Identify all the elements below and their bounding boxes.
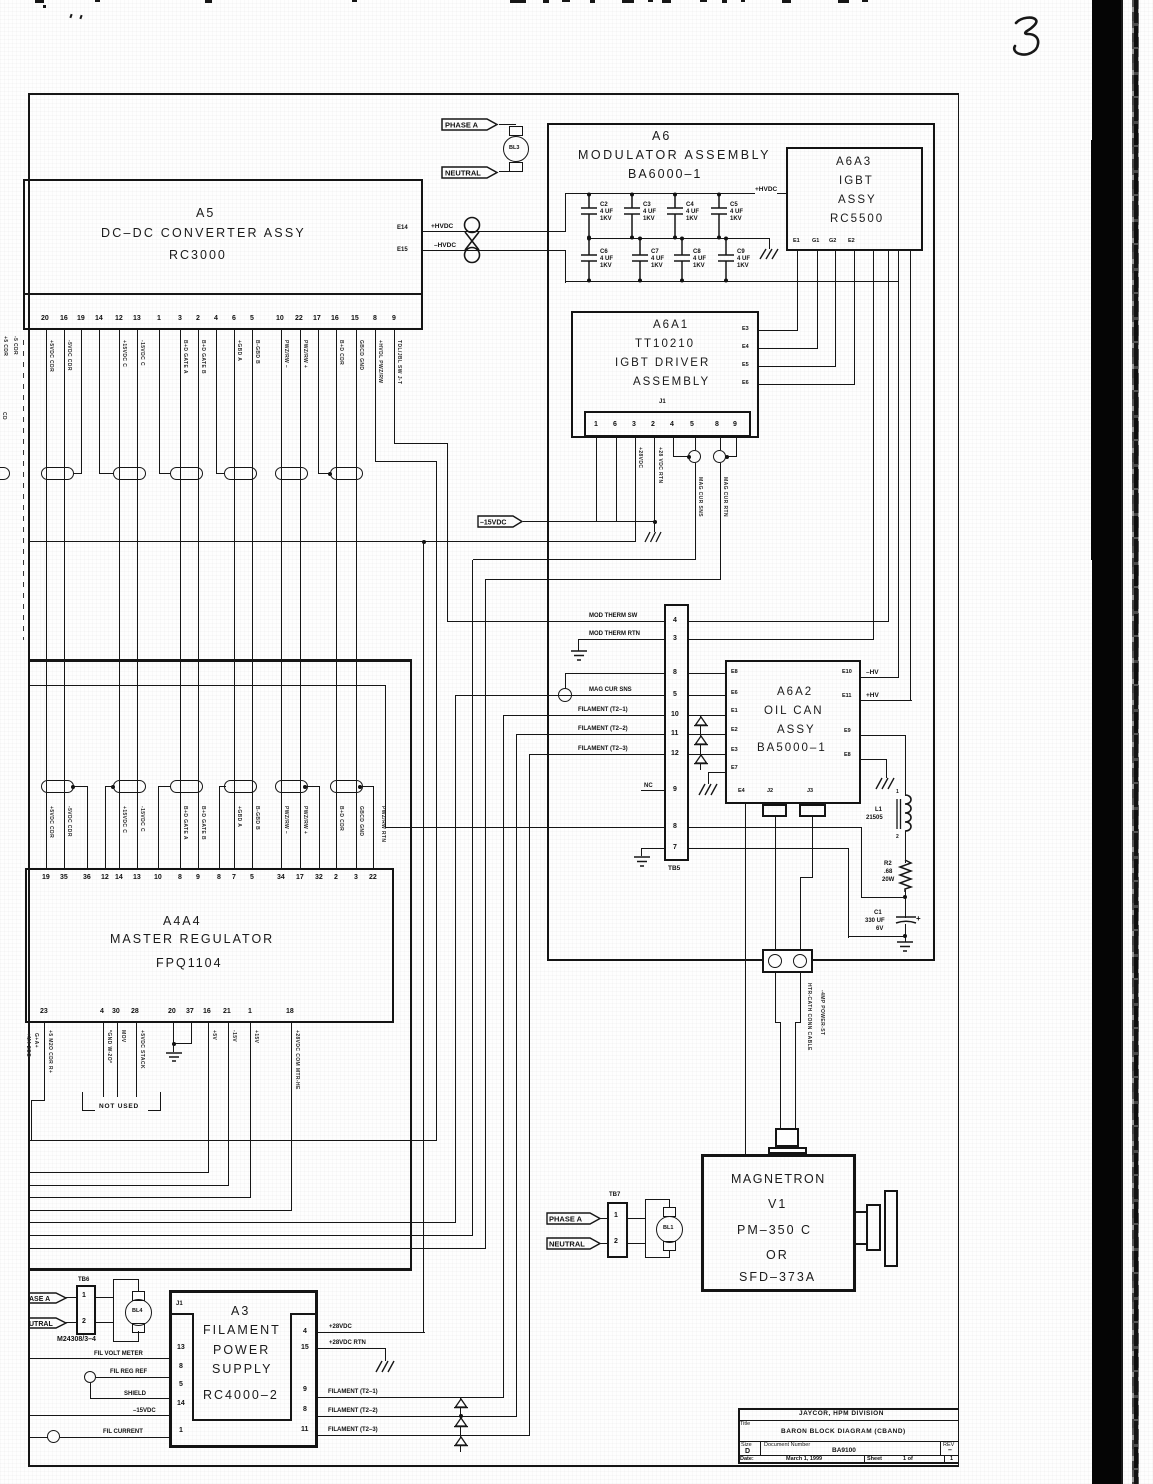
junction at oval6 left end: [328, 472, 332, 476]
FILAMENT T2-1 output: [318, 1397, 504, 1398]
wire A4A4-23: [44, 1023, 45, 1100]
wire L1 to R2: [905, 831, 906, 863]
FILAMENT T2-3 output: [318, 1435, 530, 1436]
svg-text:4 UF: 4 UF: [686, 209, 699, 215]
rotated cable labels: [806, 983, 811, 1051]
MOD THERM SW line: [447, 621, 664, 622]
wire A6A3-E1 to A6A1-E3: [797, 251, 798, 331]
spark gap stack: [700, 715, 701, 770]
capacitor C1: [895, 915, 921, 927]
wire A5-17: [318, 330, 319, 474]
magnetron V1 box: [701, 1154, 856, 1292]
resistor R2: [897, 860, 915, 892]
sheet border frame: [30, 93, 959, 95]
wire to TB5-8 feed: [30, 685, 386, 686]
A4A4 bottom pin numbers: [40, 1008, 48, 1015]
MAG CUR SNS line with CT circle: [456, 695, 664, 696]
wire J3 to magnetron stem: [812, 817, 813, 878]
pin E14: [397, 225, 408, 231]
thick C-bus bottom run: [29, 1268, 412, 1271]
MOD THERM RTN line: [578, 639, 664, 640]
svg-text:UTRAL: UTRAL: [29, 1321, 53, 1328]
J1-2 stub to ground: [654, 437, 655, 532]
J1-1 stub: [596, 437, 597, 522]
NEUTRAL flag cut at margin: [28, 1317, 68, 1329]
current transformer on J1-5: [688, 450, 701, 463]
E10 -HV wire: [861, 677, 899, 678]
inductor L1: [893, 793, 923, 837]
wire A5-4: [216, 330, 217, 474]
title block: [738, 1408, 740, 1463]
A3 filament power supply box: [169, 1290, 318, 1448]
capacitor C4: [667, 193, 707, 239]
rotated net labels below A5: [48, 340, 53, 372]
+28VDC RTN to ground: [318, 1348, 386, 1349]
J1-6 stub: [616, 437, 617, 522]
PHASE A flag at TB7: [546, 1212, 602, 1225]
wire A5-5: [252, 330, 253, 868]
wire A6A3-G1 to A6A1-E4: [817, 251, 818, 349]
svg-text:NEUTRAL: NEUTRAL: [549, 1240, 585, 1249]
arrester stack on filament lines: [460, 1397, 461, 1452]
oval2-4 tap to A4A4 pin 8: [219, 786, 226, 787]
bundle line y1140: [30, 1140, 437, 1141]
twisted pair symbol: [458, 214, 488, 266]
wire E4 to magnetron: [745, 804, 746, 1154]
svg-text:C2: C2: [600, 202, 608, 208]
wire A5-14: [99, 330, 100, 474]
-15VDC flag: [477, 515, 524, 528]
riser MAG CUR SNS to bundle: [455, 695, 456, 1223]
wire A5-9 jog: [394, 330, 395, 443]
J1-9 stub to CT: [736, 437, 737, 457]
wire J2 to magnetron stem: [775, 817, 776, 1023]
FILAMENT T2-3 line: [529, 754, 664, 755]
TB5-7 ground stub: [641, 848, 664, 849]
svg-text:1KV: 1KV: [730, 216, 742, 222]
A5 bottom pin numbers: [41, 315, 49, 322]
+28VDC riser from A3 pin4: [423, 541, 424, 1332]
wire A5-15: [356, 330, 357, 868]
svg-text:1KV: 1KV: [737, 263, 749, 269]
svg-text:PHASE A: PHASE A: [549, 1215, 583, 1224]
wire A4A4-21: [228, 1023, 229, 1186]
TB5-8 hook to sense CT: [565, 673, 664, 674]
earth ground symbol: [165, 1052, 183, 1064]
oval2-5 tap to A4A4 pin 32: [303, 785, 307, 789]
junction +28VDC riser: [422, 540, 426, 544]
wire -HVDC from E15: [423, 250, 565, 251]
svg-text:1KV: 1KV: [600, 263, 612, 269]
TB5-8 feed to R2 node: [861, 827, 862, 898]
earth ground below C1: [896, 941, 914, 954]
A5 DC-DC converter assembly box: [23, 179, 423, 330]
cut-off text scraps along top edge: [35, 0, 44, 3]
svg-text:4 UF: 4 UF: [693, 256, 706, 262]
A6A3 pin labels: [793, 239, 800, 245]
PHASE A flag cut at margin: [28, 1292, 68, 1304]
A4A4 master regulator box: [25, 868, 394, 1023]
J3 stub connector: [799, 804, 826, 817]
svg-text:C5: C5: [730, 202, 738, 208]
not-used stubs pins 4 30 28: [103, 1023, 104, 1097]
capacitor C7: [632, 237, 672, 283]
A6A3 IGBT assy box: [786, 147, 923, 251]
-15VDC line: [28, 1415, 169, 1416]
thick C-bus top run: [30, 659, 412, 662]
wire -15VDC run: [523, 521, 655, 522]
wire A5-3: [180, 330, 181, 868]
capacitor C6: [581, 237, 621, 283]
wire A6A3 to -HV: [898, 251, 899, 677]
svg-text:1KV: 1KV: [693, 263, 705, 269]
NC stub: [641, 790, 664, 791]
capacitor C9: [718, 237, 758, 283]
J1-3 stub joins +28VDC run: [635, 437, 636, 541]
FIL VOLT METER line: [28, 1358, 169, 1359]
blower BL4 wiring bracket: [96, 1297, 114, 1298]
connector oval row 2: [41, 780, 74, 793]
svg-text:1KV: 1KV: [600, 216, 612, 222]
NOT USED bracket: [82, 1092, 83, 1111]
C1 bottom node: [905, 924, 906, 942]
FIL CURRENT line with meter: [28, 1437, 48, 1438]
TB5-7 feed to C1 bottom: [848, 848, 849, 938]
PHASE A input flag: [441, 118, 499, 131]
svg-text:PHASE A: PHASE A: [445, 121, 479, 130]
svg-text:4 UF: 4 UF: [600, 256, 613, 262]
rotated labels below A4A4: [47, 1030, 52, 1073]
riser to MOD THERM SW: [447, 443, 448, 621]
wire A5-12: [119, 330, 120, 868]
wire A5-20: [46, 330, 47, 868]
E8 right ground: [861, 759, 887, 760]
wire A5-19: [81, 330, 82, 474]
connector oval row 1: [41, 467, 74, 480]
svg-text:1KV: 1KV: [643, 216, 655, 222]
wire A6A3-G2 to A6A1-E5: [835, 251, 836, 367]
svg-text:C6: C6: [600, 249, 608, 255]
wire A5-13: [137, 330, 138, 868]
cut oval at left margin: [0, 467, 10, 480]
svg-text:+: +: [916, 914, 921, 923]
wire A5-10: [281, 330, 282, 868]
J1-4 stub to CT: [673, 437, 674, 457]
waveguide flange: [856, 1211, 868, 1213]
wire A5-22: [300, 330, 301, 868]
FIL REG REF meter circle: [84, 1371, 96, 1383]
wire +28VDC run to J1-3: [30, 541, 636, 542]
oval2-2 tap to A4A4 pin 12: [111, 785, 115, 789]
oval2-6 tap to A4A4 pin 22: [358, 785, 362, 789]
capacitor C8: [674, 237, 714, 283]
pen specks top left: [43, 5, 46, 8]
A6A1 IGBT driver box: [571, 311, 759, 438]
junction at J1-2 drop: [653, 520, 657, 524]
NEUTRAL input flag: [441, 166, 499, 179]
+28VDC output: [318, 1332, 425, 1333]
wire A4A4-16: [208, 1023, 209, 1173]
wire A5-6: [234, 330, 235, 868]
svg-text:–15VDC: –15VDC: [480, 520, 506, 527]
filament risers: [503, 715, 504, 1398]
TB5-7 through line: [689, 848, 849, 849]
TB5 terminal strip: [664, 604, 689, 861]
cut rotated labels at left margin: [2, 336, 7, 356]
svg-text:C3: C3: [643, 202, 651, 208]
wire A5-16b: [336, 330, 337, 868]
TB5-8 through line: [386, 827, 664, 828]
wire A6A3 to +HV: [910, 251, 911, 700]
riser J1-5 sense to bundle: [472, 560, 473, 1236]
svg-text:C7: C7: [651, 249, 659, 255]
FILAMENT T2-1 line: [503, 715, 664, 716]
capacitor bank mid bus: [589, 238, 770, 239]
scan artifact mottled streak: [1132, 0, 1134, 1484]
E9 wire to L1: [861, 735, 906, 736]
wire A4A4-1: [250, 1023, 251, 1198]
J2 stub connector: [762, 804, 787, 817]
thick C-bus right riser: [410, 659, 413, 1270]
A6A2 oil can assy box: [725, 660, 861, 804]
svg-text:C8: C8: [693, 249, 701, 255]
wire A5-2: [198, 330, 199, 868]
pins 20/37 tied to ground: [173, 1023, 174, 1044]
svg-text:4 UF: 4 UF: [643, 209, 656, 215]
capacitor bank top bus +HVDC: [565, 193, 786, 194]
mid bus ground drop: [769, 238, 770, 249]
A4A4 top pin numbers: [42, 874, 50, 881]
oval2-1 tap to A4A4 pin 36: [71, 785, 75, 789]
blower BL1 wiring bracket: [628, 1218, 645, 1219]
FILAMENT T2-2 output: [318, 1416, 517, 1417]
svg-text:NEUTRAL: NEUTRAL: [445, 169, 481, 178]
A6 modulator assembly box: [547, 123, 935, 961]
wire A6A3 to MOD THERM RTN: [873, 251, 874, 639]
E7 ground: [708, 772, 725, 773]
wire A5-16: [64, 330, 65, 868]
svg-text:1KV: 1KV: [651, 263, 663, 269]
earth ground symbol: [570, 650, 588, 663]
FILAMENT T2-2 line: [516, 734, 664, 735]
oval2-3 tap to A4A4 pin 10: [158, 786, 170, 787]
svg-text:4 UF: 4 UF: [600, 209, 613, 215]
riser J1-8 sense to bundle: [485, 579, 486, 1249]
TB7 terminal block: [609, 1192, 620, 1198]
svg-text:4 UF: 4 UF: [730, 209, 743, 215]
capacitor C2: [581, 193, 621, 239]
scan artifact black bar at right edge: [1092, 0, 1121, 1484]
handwritten page number 3: [1008, 12, 1052, 58]
svg-text:4 UF: 4 UF: [651, 256, 664, 262]
svg-text:4 UF: 4 UF: [737, 256, 750, 262]
svg-text:ASE A: ASE A: [29, 1296, 50, 1303]
E11 +HV wire: [861, 700, 912, 701]
magnetron cathode stem: [775, 1128, 799, 1147]
svg-text:C4: C4: [686, 202, 694, 208]
wire A4A4-18: [291, 1023, 292, 1211]
pin E15: [397, 247, 408, 253]
riser to bottom-left bundle: [436, 461, 437, 1140]
rotated net labels above A4A4: [48, 806, 53, 838]
wire A6A3 to MOD THERM SW: [888, 251, 889, 621]
wire A6A3-E2 to A6A1-E6: [854, 251, 855, 385]
TB6 terminal block: [78, 1277, 89, 1283]
filament lines TB5 to A6A2: [689, 673, 725, 674]
blower BL4: [132, 1291, 145, 1301]
blower BL3: [499, 124, 516, 125]
svg-text:C9: C9: [737, 249, 745, 255]
junction R2/C1 top: [905, 890, 906, 918]
NEUTRAL flag at TB7: [546, 1237, 602, 1250]
svg-text:1KV: 1KV: [686, 216, 698, 222]
capacitor bank bottom bus: [565, 281, 899, 282]
wire A5-1: [159, 330, 160, 474]
dashed remnant of cut left edge: [23, 340, 24, 640]
SHIELD line: [90, 1383, 91, 1399]
J1 connector strip: [584, 411, 751, 437]
current transformer on J1-8: [713, 450, 726, 463]
capacitor C5: [711, 193, 751, 239]
capacitor C3: [624, 193, 664, 239]
wire +HVDC from E14: [423, 231, 565, 232]
wire A5-8 jog: [375, 330, 376, 462]
blower BL1: [663, 1207, 676, 1217]
feedthrough connector on A6 bottom: [762, 949, 813, 973]
